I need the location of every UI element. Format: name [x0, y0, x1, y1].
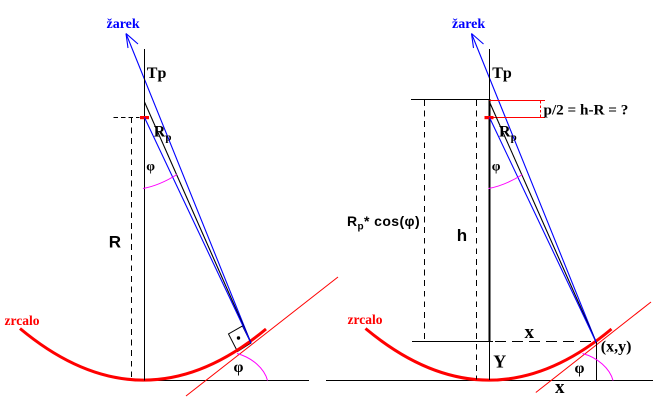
mid horizontal solid segment (right): [412, 341, 493, 343]
svg-text:zrcalo: zrcalo: [348, 312, 383, 327]
tangent line (left): [186, 277, 338, 396]
radius line Rp (right): [490, 102, 597, 343]
svg-text:(x,y): (x,y): [601, 339, 632, 356]
mirror curve (left): [20, 329, 266, 381]
incident ray (right): [472, 34, 597, 344]
svg-text:žarek: žarek: [107, 17, 140, 32]
svg-text:R: R: [109, 233, 121, 252]
principal axis vertical thin bottom Y segment (right): [489, 342, 491, 380]
mid horizontal dashed x measure (right): [495, 341, 597, 343]
baseline (left): [145, 380, 309, 382]
angle arc phi top (right): [489, 175, 523, 189]
angle arc phi top (left): [143, 175, 177, 189]
reflected ray (left): [145, 118, 252, 344]
center mark red (left): [140, 116, 149, 119]
right angle marker square (left): [229, 326, 252, 352]
vertical drop from hit point (right): [596, 342, 598, 381]
principal axis vertical thin top (right): [489, 49, 491, 100]
tangent line (right): [536, 302, 651, 393]
red bracket bottom line (right): [485, 117, 546, 119]
svg-text:p/2 = h-R = ?: p/2 = h-R = ?: [544, 101, 629, 118]
center mark red (right): [485, 116, 494, 119]
top horizontal line (right): [411, 99, 490, 101]
svg-text:φ: φ: [492, 159, 501, 174]
svg-text:x: x: [555, 377, 565, 398]
dashed vertical h axis line (right): [476, 100, 478, 379]
red bracket dashed vertical (right): [540, 101, 542, 117]
incident ray (left): [126, 34, 251, 344]
reflected ray (right): [490, 118, 597, 344]
svg-text:zrcalo: zrcalo: [5, 313, 40, 328]
dashed vertical Rp cos line (right): [424, 100, 426, 342]
svg-text:Tp: Tp: [147, 65, 167, 82]
svg-text:žarek: žarek: [452, 17, 485, 32]
svg-text:φ: φ: [146, 159, 155, 174]
ray arrowhead (left): [126, 34, 138, 49]
dashed vertical R line (left): [131, 117, 133, 380]
principal axis vertical thick h segment (right): [489, 99, 491, 342]
svg-text:x: x: [525, 322, 535, 343]
principal axis vertical line (left): [144, 49, 146, 381]
dashed horizontal tick (left): [114, 117, 140, 119]
angle arc phi bottom (right): [583, 354, 614, 381]
mirror curve (right): [366, 329, 612, 381]
svg-text:φ: φ: [234, 359, 244, 376]
svg-text:Y: Y: [493, 351, 506, 371]
ray arrowhead (right): [472, 34, 484, 49]
baseline (right): [326, 380, 653, 382]
radius line Rp (left): [145, 102, 252, 343]
normal dot (left): [237, 336, 240, 339]
red bracket top line (right): [490, 100, 546, 102]
svg-text:φ: φ: [575, 360, 585, 377]
svg-text:h: h: [457, 226, 467, 245]
angle arc phi bottom (left): [237, 354, 268, 381]
svg-text:Tp: Tp: [492, 65, 512, 82]
